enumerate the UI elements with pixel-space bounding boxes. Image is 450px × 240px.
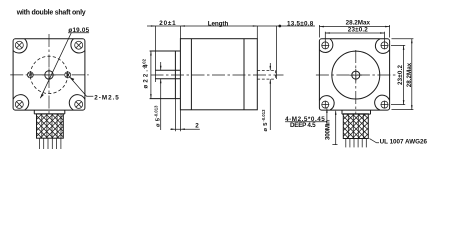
dim front shaft dia	[153, 62, 161, 130]
rear wire neck	[342, 110, 371, 114]
dim 20+-1	[159, 20, 176, 27]
front bolt circle (dashed)	[30, 56, 67, 93]
label 2-M2.5 leader	[70, 77, 119, 101]
svg-text:2-M2.5: 2-M2.5	[94, 94, 119, 101]
svg-text:UL 1007 AWG26: UL 1007 AWG26	[380, 138, 428, 145]
rear centerlines	[316, 50, 396, 114]
side pilot boss	[150, 51, 181, 99]
dim 13.5+-0.8	[287, 20, 314, 27]
side end cap lines	[191, 39, 244, 110]
rear corner ear arcs	[320, 39, 390, 110]
rear shaft circle	[350, 69, 363, 82]
dim 2 pilot	[170, 99, 200, 132]
dim 22.4 vertical	[142, 51, 152, 99]
svg-text:-0.02: -0.02	[142, 58, 147, 69]
dim 28.2Max right	[392, 39, 414, 110]
front wire neck	[34, 110, 65, 114]
svg-text:ø5: ø5	[155, 117, 161, 127]
svg-text:-0.013: -0.013	[261, 109, 266, 122]
label 19.05 leader	[40, 27, 89, 98]
label 4-M2.5 tapped holes	[285, 108, 328, 129]
svg-text:DEEP 4.5: DEEP 4.5	[290, 122, 316, 129]
svg-text:23±0.2: 23±0.2	[397, 65, 404, 85]
rear view plate	[319, 39, 389, 110]
svg-text:300Min: 300Min	[325, 120, 332, 140]
front view plate	[13, 39, 85, 110]
dim Length	[208, 20, 229, 27]
note: with double shaft only	[16, 9, 86, 16]
front cable hatch block	[37, 114, 64, 138]
rear corner screws	[321, 42, 388, 109]
svg-text:Length: Length	[208, 20, 229, 27]
svg-text:13.5±0.8: 13.5±0.8	[287, 20, 314, 27]
side centerline	[151, 74, 284, 76]
svg-text:20±1: 20±1	[159, 20, 176, 27]
dim 23+-0.2 right	[391, 45, 405, 104]
label UL 1007 AWG26	[370, 138, 428, 145]
front centerlines	[10, 34, 89, 116]
rear shaft (dashed, double shaft option)	[257, 70, 275, 79]
rear boss circle	[332, 51, 380, 99]
rear cable hatch block	[343, 114, 368, 139]
top dimension line group	[147, 25, 315, 79]
svg-text:with double shaft only: with double shaft only	[16, 9, 86, 16]
svg-text:2: 2	[195, 122, 199, 129]
front corner screw symbols	[15, 41, 82, 108]
dim 300Min wire length	[325, 110, 338, 144]
svg-text:28.2Max: 28.2Max	[406, 62, 413, 87]
front shaft circle	[43, 68, 56, 81]
svg-text:23±0.2: 23±0.2	[348, 27, 368, 34]
side view body	[180, 39, 257, 110]
svg-text:-0.013: -0.013	[153, 105, 158, 118]
dim 28.2Max top	[319, 20, 389, 38]
dim rear shaft dia	[261, 63, 271, 132]
front hidden holes 2-M2.5	[27, 72, 70, 78]
front corner ear arcs	[13, 39, 85, 110]
rear lead wires	[346, 139, 367, 148]
side front shaft	[155, 26, 180, 82]
svg-text:ø5: ø5	[263, 122, 269, 132]
dim 23+-0.2 top	[325, 27, 384, 42]
front lead wires	[39, 138, 61, 149]
